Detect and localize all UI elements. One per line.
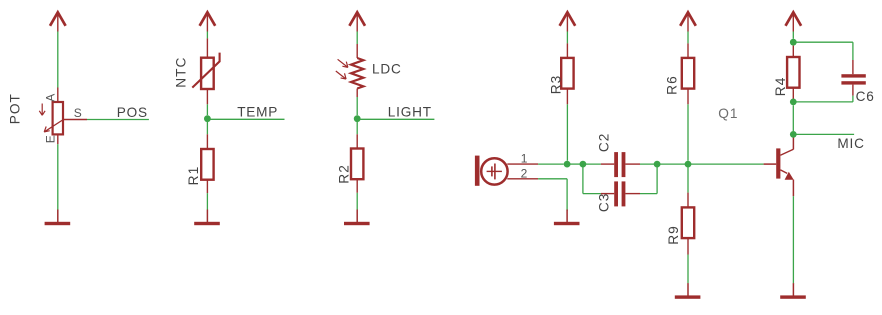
wire R4 node to collector node — [792, 105, 794, 131]
wire pin 2 down to ground — [566, 179, 568, 211]
label label C6 — [856, 89, 875, 104]
pin label 2 — [521, 167, 528, 181]
svg-text:R9: R9 — [666, 225, 681, 245]
ground for R1 — [194, 210, 220, 226]
svg-text:C3: C3 — [597, 193, 612, 213]
pin label 1 — [521, 151, 528, 165]
wire C2 to right node — [640, 163, 657, 165]
wire R2 to ground — [356, 193, 358, 210]
wire base node to Q1 — [688, 163, 764, 165]
wire net POS — [87, 119, 149, 121]
wire to C2 left pin — [583, 163, 601, 165]
wire branch down to C3 — [582, 164, 584, 194]
label R1 — [186, 166, 201, 186]
resistor R2 — [351, 149, 363, 180]
wire emitter pin — [792, 180, 794, 197]
supply arrow for R4 — [786, 12, 802, 31]
svg-text:R1: R1 — [186, 166, 201, 186]
junction node base — [685, 161, 692, 168]
ground for POT — [45, 210, 71, 226]
resistor R3 — [561, 58, 573, 89]
label net name MIC — [837, 136, 864, 151]
wire pin 2 net — [538, 178, 567, 180]
label POT — [8, 93, 23, 124]
ground for microphone — [554, 210, 580, 226]
wire mic pin 1 stub — [507, 163, 538, 165]
wire supply to POT pin A — [57, 32, 59, 88]
supply arrow for NTC — [200, 12, 216, 31]
svg-text:MIC: MIC — [837, 136, 864, 151]
svg-text:LIGHT: LIGHT — [388, 105, 432, 120]
svg-text:A: A — [44, 94, 58, 102]
svg-text:Q1: Q1 — [718, 106, 738, 121]
thermistor NTC — [192, 53, 219, 89]
microphone — [475, 156, 508, 186]
junction node R4 bottom — [790, 99, 797, 106]
wire mic pin 2 stub — [507, 178, 538, 180]
pin label A — [44, 94, 58, 102]
svg-text:R2: R2 — [336, 164, 351, 184]
junction node R4 top — [790, 39, 797, 46]
label R2 — [336, 164, 351, 184]
label R9 — [666, 225, 681, 245]
wire C6 top branch down — [852, 42, 854, 60]
wire C6 branch back to R4 — [793, 101, 853, 103]
wire R2 bottom pin — [356, 179, 358, 193]
label net name LIGHT — [388, 105, 432, 120]
label C3 — [597, 193, 612, 213]
wire R6 to base node — [687, 104, 689, 160]
wire R1 to ground — [206, 193, 208, 209]
label net name TEMP — [237, 105, 278, 120]
capacitor C3 — [614, 181, 625, 206]
svg-text:R4: R4 — [773, 76, 788, 96]
capacitor C6 — [841, 74, 865, 84]
junction node collector — [790, 131, 797, 138]
wire supply to R4 node — [792, 32, 794, 39]
wire R1 bottom pin — [206, 180, 208, 193]
label C2 — [597, 133, 612, 153]
ground for Q1 emitter — [780, 283, 806, 299]
potentiometer POT — [39, 102, 63, 134]
wire LDC to LIGHT node — [356, 97, 358, 115]
wire C3 left pin — [601, 193, 614, 195]
svg-text:TEMP: TEMP — [237, 105, 278, 120]
supply arrow for LDC — [349, 12, 365, 31]
wire main wire to C2 branch — [567, 163, 583, 165]
supply arrow for R6 — [680, 12, 696, 31]
svg-text:S: S — [74, 106, 82, 120]
wire supply to LDC — [356, 32, 358, 45]
wire R9 bottom pin — [687, 238, 689, 254]
wire C6 bottom branch down — [852, 96, 854, 102]
pin label S — [74, 106, 82, 120]
svg-text:R6: R6 — [665, 75, 680, 95]
svg-text:C2: C2 — [597, 133, 612, 153]
wire C2 left pin — [601, 163, 614, 165]
junction node C2/C3 right — [654, 161, 661, 168]
wire NTC to TEMP node — [206, 104, 208, 115]
wire NTC bottom pin — [206, 89, 208, 104]
wire pin 1 to node — [538, 163, 564, 165]
wire R4 top pin — [792, 46, 794, 57]
wire NTC top pin — [206, 38, 208, 57]
wire R6 top pin — [687, 43, 689, 58]
wire pin E stub — [57, 134, 59, 144]
label R6 — [665, 75, 680, 95]
wire R1 top pin — [206, 134, 208, 149]
wire TEMP node to R1 — [206, 122, 208, 134]
wire R3 top pin — [566, 43, 568, 58]
resistor R9 — [682, 207, 694, 238]
svg-text:1: 1 — [521, 151, 528, 165]
wire supply to R3 — [566, 32, 568, 44]
ground for R9 — [675, 283, 701, 299]
junction node R3/mic — [564, 161, 571, 168]
wire pin A stub — [57, 88, 59, 103]
wire R6 bottom pin — [687, 89, 689, 105]
photoresistor LDC — [336, 58, 364, 89]
resistor R4 — [787, 57, 799, 88]
transistor Q1 — [764, 148, 794, 179]
wire supply to NTC — [206, 32, 208, 39]
wire R3 to main node — [566, 104, 568, 160]
svg-text:NTC: NTC — [173, 57, 188, 88]
wire R4 bottom pin — [792, 88, 794, 102]
svg-text:R3: R3 — [549, 75, 564, 95]
capacitor C2 — [614, 152, 625, 177]
wire emitter to ground — [792, 196, 794, 283]
wire main wire to R6 node — [657, 163, 688, 165]
junction node LIGHT — [354, 115, 361, 122]
wire net TEMP — [210, 118, 284, 120]
wire R9 to ground — [687, 255, 689, 284]
label Q1 — [718, 106, 738, 121]
svg-text:POT: POT — [8, 93, 23, 124]
wire C6 bottom pin — [852, 85, 854, 96]
svg-text:C6: C6 — [856, 89, 875, 104]
wire R2 top pin — [356, 134, 358, 148]
wire C3 to right branch — [640, 193, 657, 195]
wire C3 right pin — [625, 193, 640, 195]
wire LIGHT node to R2 — [356, 122, 358, 134]
wire LDC top pin — [356, 44, 358, 58]
wire C2 right pin — [625, 163, 640, 165]
wire net LIGHT — [360, 118, 434, 120]
wire collector pin — [792, 134, 794, 149]
resistor R1 — [201, 149, 213, 180]
label R4 — [773, 76, 788, 96]
label label LDC — [372, 62, 402, 77]
pin label E — [43, 135, 57, 143]
supply arrow for POT — [50, 12, 66, 31]
ground for R2 — [344, 210, 370, 226]
wire LDC bottom pin — [356, 89, 358, 98]
supply arrow for R3 — [560, 12, 576, 31]
resistor R6 — [682, 58, 694, 89]
svg-text:LDC: LDC — [372, 62, 402, 77]
wire branch up to node — [656, 164, 658, 194]
wire node down to R9 — [687, 167, 689, 193]
wire C6 top pin — [852, 60, 854, 74]
wire branch to C6 top — [793, 41, 853, 43]
wire supply to R6 — [687, 32, 689, 44]
wire POT to ground — [57, 144, 59, 209]
wire pin S stub — [63, 119, 87, 121]
svg-text:E: E — [43, 135, 57, 143]
label NTC — [173, 57, 188, 88]
label net name POS — [117, 105, 148, 120]
junction node C2/C3 left — [580, 161, 587, 168]
svg-text:POS: POS — [117, 105, 148, 120]
wire to C3 left pin — [583, 193, 601, 195]
wire R9 top pin — [687, 193, 689, 208]
wire net MIC — [796, 133, 854, 135]
label R3 — [549, 75, 564, 95]
junction node TEMP — [204, 115, 211, 122]
wire R3 bottom pin — [566, 89, 568, 105]
